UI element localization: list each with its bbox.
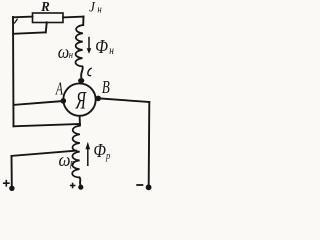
wire bottom-left + terminal riser <box>11 156 13 186</box>
terminal - (bottom right) dot <box>146 184 152 190</box>
flux arrow Phi-n (down) <box>87 37 92 54</box>
brush node B dot <box>95 96 101 102</box>
wire down to coil Wn <box>82 17 84 25</box>
wire coil Wp tail to + terminal <box>79 178 80 186</box>
wire top (rail corner to resistor) <box>13 16 33 19</box>
terminal + (bottom left) dot <box>9 186 14 191</box>
resistor R bottom tap stub <box>46 22 47 32</box>
svg-text:A: A <box>55 80 64 99</box>
svg-text:н: н <box>109 44 114 57</box>
wire + terminal to coil Wp tap <box>12 151 77 156</box>
wire resistor right lead <box>63 16 84 19</box>
wire coil Wn tail to node C <box>81 67 83 78</box>
svg-text:J: J <box>89 0 96 15</box>
junction tick <box>15 19 18 23</box>
wire A (rail to brush A) <box>14 101 61 105</box>
svg-text:Ф: Ф <box>95 35 108 57</box>
wire bottom-left (rail corner to coil Wp top) <box>14 124 80 126</box>
svg-text:R: R <box>40 0 50 14</box>
terminal + (bottom middle) dot <box>78 185 83 190</box>
node C junction blob <box>78 78 84 83</box>
svg-text:р: р <box>105 150 110 162</box>
armature circle Ya <box>63 83 95 115</box>
wire left rail <box>12 17 15 126</box>
wire armature bottom stub <box>79 116 81 124</box>
svg-text:ω: ω <box>58 41 69 62</box>
svg-text:B: B <box>102 78 110 97</box>
svg-text:ω: ω <box>58 149 70 170</box>
svg-text:н: н <box>97 4 101 16</box>
brush node A dot <box>61 98 67 104</box>
flux arrow Phi-p (up) <box>86 142 91 166</box>
coil Wp (control winding) <box>72 124 80 178</box>
terminal - (bottom right) sign <box>136 184 143 186</box>
svg-text:Ф: Ф <box>93 139 106 161</box>
resistor R body <box>33 13 64 23</box>
wire right rail <box>148 102 151 184</box>
terminal + (bottom left) sign <box>3 180 10 187</box>
terminal + (bottom middle) sign <box>70 183 76 189</box>
svg-text:Я: Я <box>75 87 87 115</box>
svg-text:р: р <box>69 157 74 169</box>
svg-text:н: н <box>69 49 73 61</box>
wire B (brush B to right rail) <box>100 99 149 103</box>
wire lower-left (tap to rail) <box>13 32 46 33</box>
coil Wn (field winding) <box>75 25 83 67</box>
node C label <box>88 68 92 76</box>
